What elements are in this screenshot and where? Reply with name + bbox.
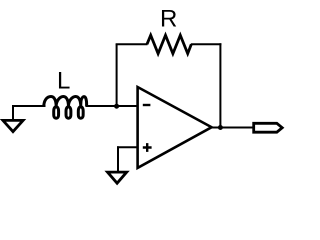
node B (output junction) — [218, 125, 223, 130]
ground (left input) — [3, 120, 23, 131]
plus sign (non-inverting input) — [143, 143, 152, 152]
node A (inverting input junction) — [114, 104, 119, 109]
wire: feedback down right — [219, 43, 221, 127]
svg-text:L: L — [57, 68, 70, 95]
wire: feedback top left lead — [116, 43, 148, 45]
wire: feedback top right lead — [191, 43, 222, 45]
wire: op-amp output — [211, 127, 254, 129]
wire: feedback up left — [116, 44, 118, 107]
svg-text:R: R — [160, 6, 177, 33]
minus sign (inverting input) — [143, 104, 151, 106]
inductor L — [44, 97, 87, 119]
output port — [254, 123, 283, 132]
wire: non-inverting input — [117, 146, 139, 148]
wire: ground drop left — [12, 105, 14, 120]
ground (non-inverting) — [108, 172, 127, 183]
wire: left ground to inductor — [13, 105, 46, 107]
wire: inductor to op-amp inverting input — [86, 105, 139, 107]
wire: drop to bottom ground — [117, 146, 119, 171]
resistor R — [147, 35, 191, 53]
op-amp U1 — [138, 87, 212, 168]
